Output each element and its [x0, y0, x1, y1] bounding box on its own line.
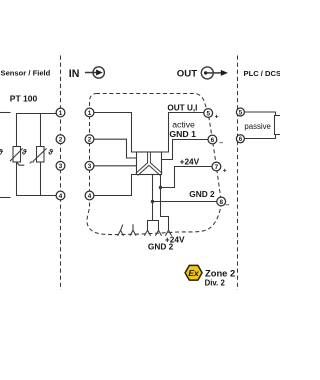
terminal 7 module	[212, 162, 221, 171]
wire input 1 to amplifier	[94, 113, 137, 153]
terminal 6 module	[208, 135, 217, 144]
svg-text:IN: IN	[69, 68, 80, 80]
load resistor PLC	[275, 116, 285, 135]
svg-text:7: 7	[215, 164, 219, 171]
svg-text:ϑ: ϑ	[47, 147, 53, 156]
svg-text:4: 4	[59, 193, 63, 200]
wire RTD2 top	[17, 114, 57, 147]
svg-text:Div. 2: Div. 2	[205, 278, 226, 287]
terminal 5 PLC	[236, 108, 244, 116]
svg-text:OUT U,I: OUT U,I	[167, 104, 197, 113]
wire RTD3 top	[40, 114, 42, 147]
svg-text:OUT: OUT	[177, 69, 197, 80]
bus pin 1	[118, 225, 124, 236]
svg-text:PLC / DCS: PLC / DCS	[244, 69, 281, 78]
svg-text:passive: passive	[244, 122, 270, 131]
terminal 6 PLC	[236, 135, 244, 143]
wire +24V from terminal 7	[161, 167, 213, 188]
svg-text:–: –	[226, 201, 230, 208]
bus pin 2	[130, 224, 136, 236]
svg-text:Sensor / Field: Sensor / Field	[1, 69, 51, 78]
resistor RTD3	[30, 147, 47, 164]
terminal 3 field side	[56, 161, 65, 170]
wire PLC load loop return	[244, 135, 275, 139]
svg-text:3: 3	[59, 163, 63, 170]
svg-text:4: 4	[88, 193, 92, 200]
terminal 1 field side	[56, 108, 65, 117]
svg-text:–: –	[219, 140, 223, 147]
terminal 4 field side	[56, 191, 65, 200]
svg-text:ϑ: ϑ	[0, 147, 3, 156]
wire RTD3 bottom	[40, 162, 42, 196]
resistor RTD2	[10, 147, 24, 166]
signal flow symbol OUT	[201, 67, 228, 79]
svg-text:active: active	[172, 120, 195, 130]
terminal 2 field side	[56, 135, 65, 144]
Ex hazardous area logo	[185, 265, 202, 280]
svg-text:GND 2: GND 2	[148, 242, 174, 252]
signal flow symbol IN	[85, 67, 105, 78]
wire input 3 to amplifier	[94, 165, 137, 167]
svg-text:ϑ: ϑ	[21, 147, 27, 156]
terminal 5 module	[204, 109, 213, 118]
wire dashed boundary OUT to PLC	[237, 56, 239, 291]
svg-text:+: +	[215, 113, 219, 120]
svg-text:+24V: +24V	[180, 156, 200, 166]
wire GND 2 split to bus pins	[148, 221, 159, 229]
svg-text:6: 6	[211, 137, 215, 144]
terminal 1 module	[85, 108, 94, 117]
wire RTD1 bottom stub	[0, 197, 11, 199]
svg-text:5: 5	[239, 109, 243, 116]
svg-text:5: 5	[206, 110, 210, 117]
wire RTD1 top stub	[0, 112, 11, 114]
svg-text:Zone 2: Zone 2	[205, 267, 235, 278]
bus pin 5	[165, 228, 171, 236]
bus pin 3	[144, 228, 150, 236]
wire GND 2 to terminal 8	[153, 201, 218, 203]
svg-text:GND 2: GND 2	[189, 189, 215, 199]
svg-text:1: 1	[59, 110, 63, 117]
wire output OUT U,I to terminal 5	[162, 113, 204, 153]
module enclosure dashed outline	[87, 94, 221, 235]
terminal 2 module	[85, 135, 94, 144]
svg-text:GND 1: GND 1	[169, 129, 196, 139]
bus pin 4	[155, 228, 161, 236]
junction +24V on supply leg	[159, 186, 162, 189]
wire RTD2 bottom	[17, 162, 57, 196]
wire supply leg right to bus pin	[161, 175, 169, 229]
wire input 4 to amplifier	[94, 175, 137, 196]
svg-text:3: 3	[88, 163, 92, 170]
wire dashed boundary sensor/field to IN	[60, 56, 62, 291]
svg-text:8: 8	[219, 199, 223, 206]
svg-text:2: 2	[88, 137, 92, 144]
wire PLC load loop	[244, 112, 275, 116]
svg-text:6: 6	[239, 136, 243, 143]
svg-text:+: +	[223, 167, 227, 174]
svg-text:1: 1	[88, 110, 92, 117]
terminal 4 module	[85, 191, 94, 200]
wire supply leg center	[152, 175, 154, 221]
terminal 8 module	[217, 197, 226, 206]
svg-text:2: 2	[59, 137, 63, 144]
terminal 3 module	[85, 161, 94, 170]
wire GND 1 to terminal 6	[162, 140, 209, 160]
svg-text:PT 100: PT 100	[10, 94, 38, 104]
wire input 2 to amplifier	[94, 139, 137, 158]
svg-text:Ex: Ex	[188, 268, 200, 278]
isolation amplifier U1	[137, 151, 162, 174]
junction GND 2	[151, 200, 154, 203]
